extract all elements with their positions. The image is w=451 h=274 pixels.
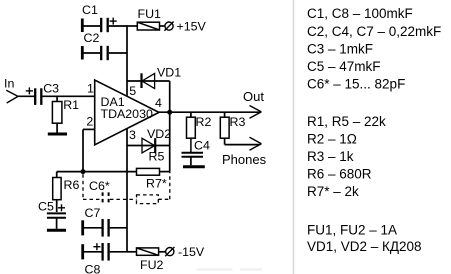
wire feedback (R6 to R5) (57, 171, 137, 173)
svg-text:R6 – 680R: R6 – 680R (307, 167, 372, 182)
svg-text:Out: Out (243, 89, 264, 104)
svg-text:+15V: +15V (177, 19, 207, 33)
faint watermark (197, 268, 233, 271)
svg-text:R3 – 1k: R3 – 1k (307, 149, 354, 164)
ground (C4) (183, 165, 205, 168)
wire C3 to pin 1 (42, 95, 94, 97)
fuse FU1 (127, 22, 165, 30)
svg-text:C2, C4, C7 – 0,22mkF: C2, C4, C7 – 0,22mkF (307, 24, 441, 39)
svg-text:5: 5 (129, 84, 136, 98)
svg-text:VD1, VD2 – КД208: VD1, VD2 – КД208 (307, 239, 422, 254)
wire -V line (pin 3) (126, 129, 128, 252)
capacitor C7 (83, 219, 127, 237)
arrow Out (250, 106, 262, 119)
svg-text:C1, C8 – 100mkF: C1, C8 – 100mkF (307, 6, 413, 21)
svg-text:C5 – 47mkF: C5 – 47mkF (307, 59, 381, 74)
svg-text:C3: C3 (43, 82, 59, 96)
diode VD1 (127, 73, 170, 88)
terminal +15V (164, 22, 173, 31)
ground (C5) (47, 229, 66, 232)
svg-text:In: In (4, 76, 14, 90)
svg-text:R2 – 1Ω: R2 – 1Ω (307, 131, 357, 146)
capacitor C3 (35, 88, 41, 105)
wire C1 to bus (109, 25, 127, 27)
diode VD2 (127, 138, 170, 153)
svg-text:3: 3 (129, 128, 136, 142)
svg-text:Phones: Phones (222, 152, 267, 167)
plus of C8 (93, 243, 100, 250)
svg-text:1: 1 (87, 82, 94, 96)
wire In to C3 (18, 95, 35, 97)
wire C2 to bus (109, 52, 127, 54)
node pin2 junction (81, 169, 86, 174)
wire phones (225, 144, 261, 146)
svg-text:R2: R2 (196, 115, 212, 129)
wire output node vertical (169, 112, 171, 171)
svg-text:R6: R6 (64, 178, 80, 192)
capacitor C1 (82, 18, 116, 33)
svg-text:R1: R1 (63, 98, 79, 112)
resistor R6 (53, 172, 61, 212)
capacitor C5 (47, 213, 66, 228)
resistor R3 (220, 112, 229, 144)
wire output (159, 111, 260, 113)
arrow Phones (250, 137, 262, 150)
wire R5 to output drop (160, 171, 170, 173)
wire pin 2 (83, 129, 95, 171)
svg-text:C8: C8 (85, 262, 101, 274)
svg-text:R1, R5 – 22k: R1, R5 – 22k (307, 114, 386, 129)
ground (R1) (48, 133, 67, 136)
svg-text:FU1: FU1 (138, 7, 162, 21)
terminal -15V (165, 247, 174, 256)
svg-text:FU2: FU2 (140, 258, 164, 272)
wire VD1 to output node (169, 81, 171, 112)
resistor R5 (137, 168, 160, 175)
plus of C3 (26, 87, 33, 94)
separator line (293, 0, 295, 274)
svg-text:C4: C4 (194, 138, 210, 152)
svg-text:C6*: C6* (89, 179, 110, 193)
op-amp DA1 TDA2030 (95, 80, 159, 145)
node output (167, 110, 172, 115)
plus of C5 (58, 204, 65, 211)
svg-text:R3: R3 (230, 115, 246, 129)
svg-text:TDA2030: TDA2030 (101, 107, 153, 121)
capacitor C2 (82, 46, 107, 60)
svg-text:C2: C2 (84, 31, 100, 45)
resistor R7* (dashed) (137, 172, 170, 204)
svg-text:R7*: R7* (146, 177, 167, 191)
fuse FU2 (127, 248, 166, 255)
svg-text:FU1, FU2 – 1A: FU1, FU2 – 1A (307, 222, 397, 237)
resistor R1 (52, 96, 62, 133)
svg-text:C5: C5 (38, 199, 54, 213)
svg-text:4: 4 (155, 96, 162, 110)
svg-text:VD1: VD1 (157, 66, 181, 80)
capacitor C6* (dashed) (83, 174, 137, 205)
svg-text:R7* – 2k: R7* – 2k (307, 184, 359, 199)
svg-text:C6* – 15... 82pF: C6* – 15... 82pF (307, 77, 405, 92)
svg-text:C7: C7 (85, 206, 101, 220)
resistor R2 (187, 112, 196, 152)
capacitor C8 (83, 243, 127, 261)
input arrow (6, 90, 18, 103)
svg-text:R5: R5 (149, 150, 165, 164)
svg-text:C1: C1 (82, 3, 98, 17)
svg-text:-15V: -15V (178, 245, 205, 259)
wire +V bus (pin 5) (126, 25, 128, 96)
svg-text:C3 – 1mkF: C3 – 1mkF (307, 41, 373, 56)
capacitor C4 (182, 153, 204, 166)
svg-text:VD2: VD2 (147, 127, 171, 141)
svg-text:2: 2 (86, 115, 93, 129)
